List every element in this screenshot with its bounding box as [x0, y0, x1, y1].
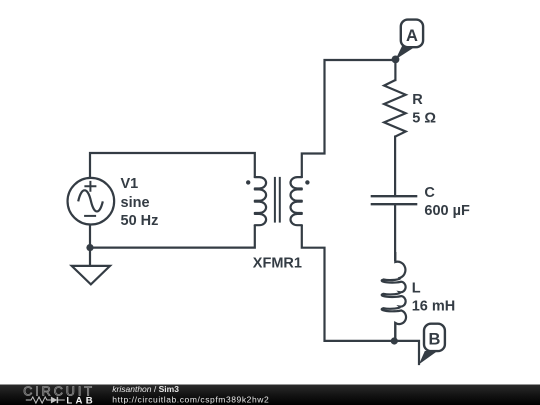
svg-text:LAB: LAB [66, 395, 96, 405]
svg-text:V1: V1 [121, 176, 139, 192]
svg-text:http://circuitlab.com/cspfm389: http://circuitlab.com/cspfm389k2hw2 [112, 394, 269, 404]
svg-text:600 µF: 600 µF [424, 203, 470, 219]
svg-text:R: R [412, 92, 423, 108]
svg-text:50 Hz: 50 Hz [121, 213, 159, 229]
svg-text:krisanthon / Sim3: krisanthon / Sim3 [112, 384, 179, 394]
svg-text:A: A [406, 27, 418, 45]
svg-text:5 Ω: 5 Ω [412, 110, 436, 126]
svg-text:C: C [424, 185, 435, 201]
svg-text:XFMR1: XFMR1 [253, 255, 302, 271]
svg-text:B: B [428, 330, 440, 348]
svg-text:sine: sine [121, 195, 150, 211]
svg-text:L: L [412, 280, 421, 296]
svg-text:16 mH: 16 mH [412, 298, 456, 314]
